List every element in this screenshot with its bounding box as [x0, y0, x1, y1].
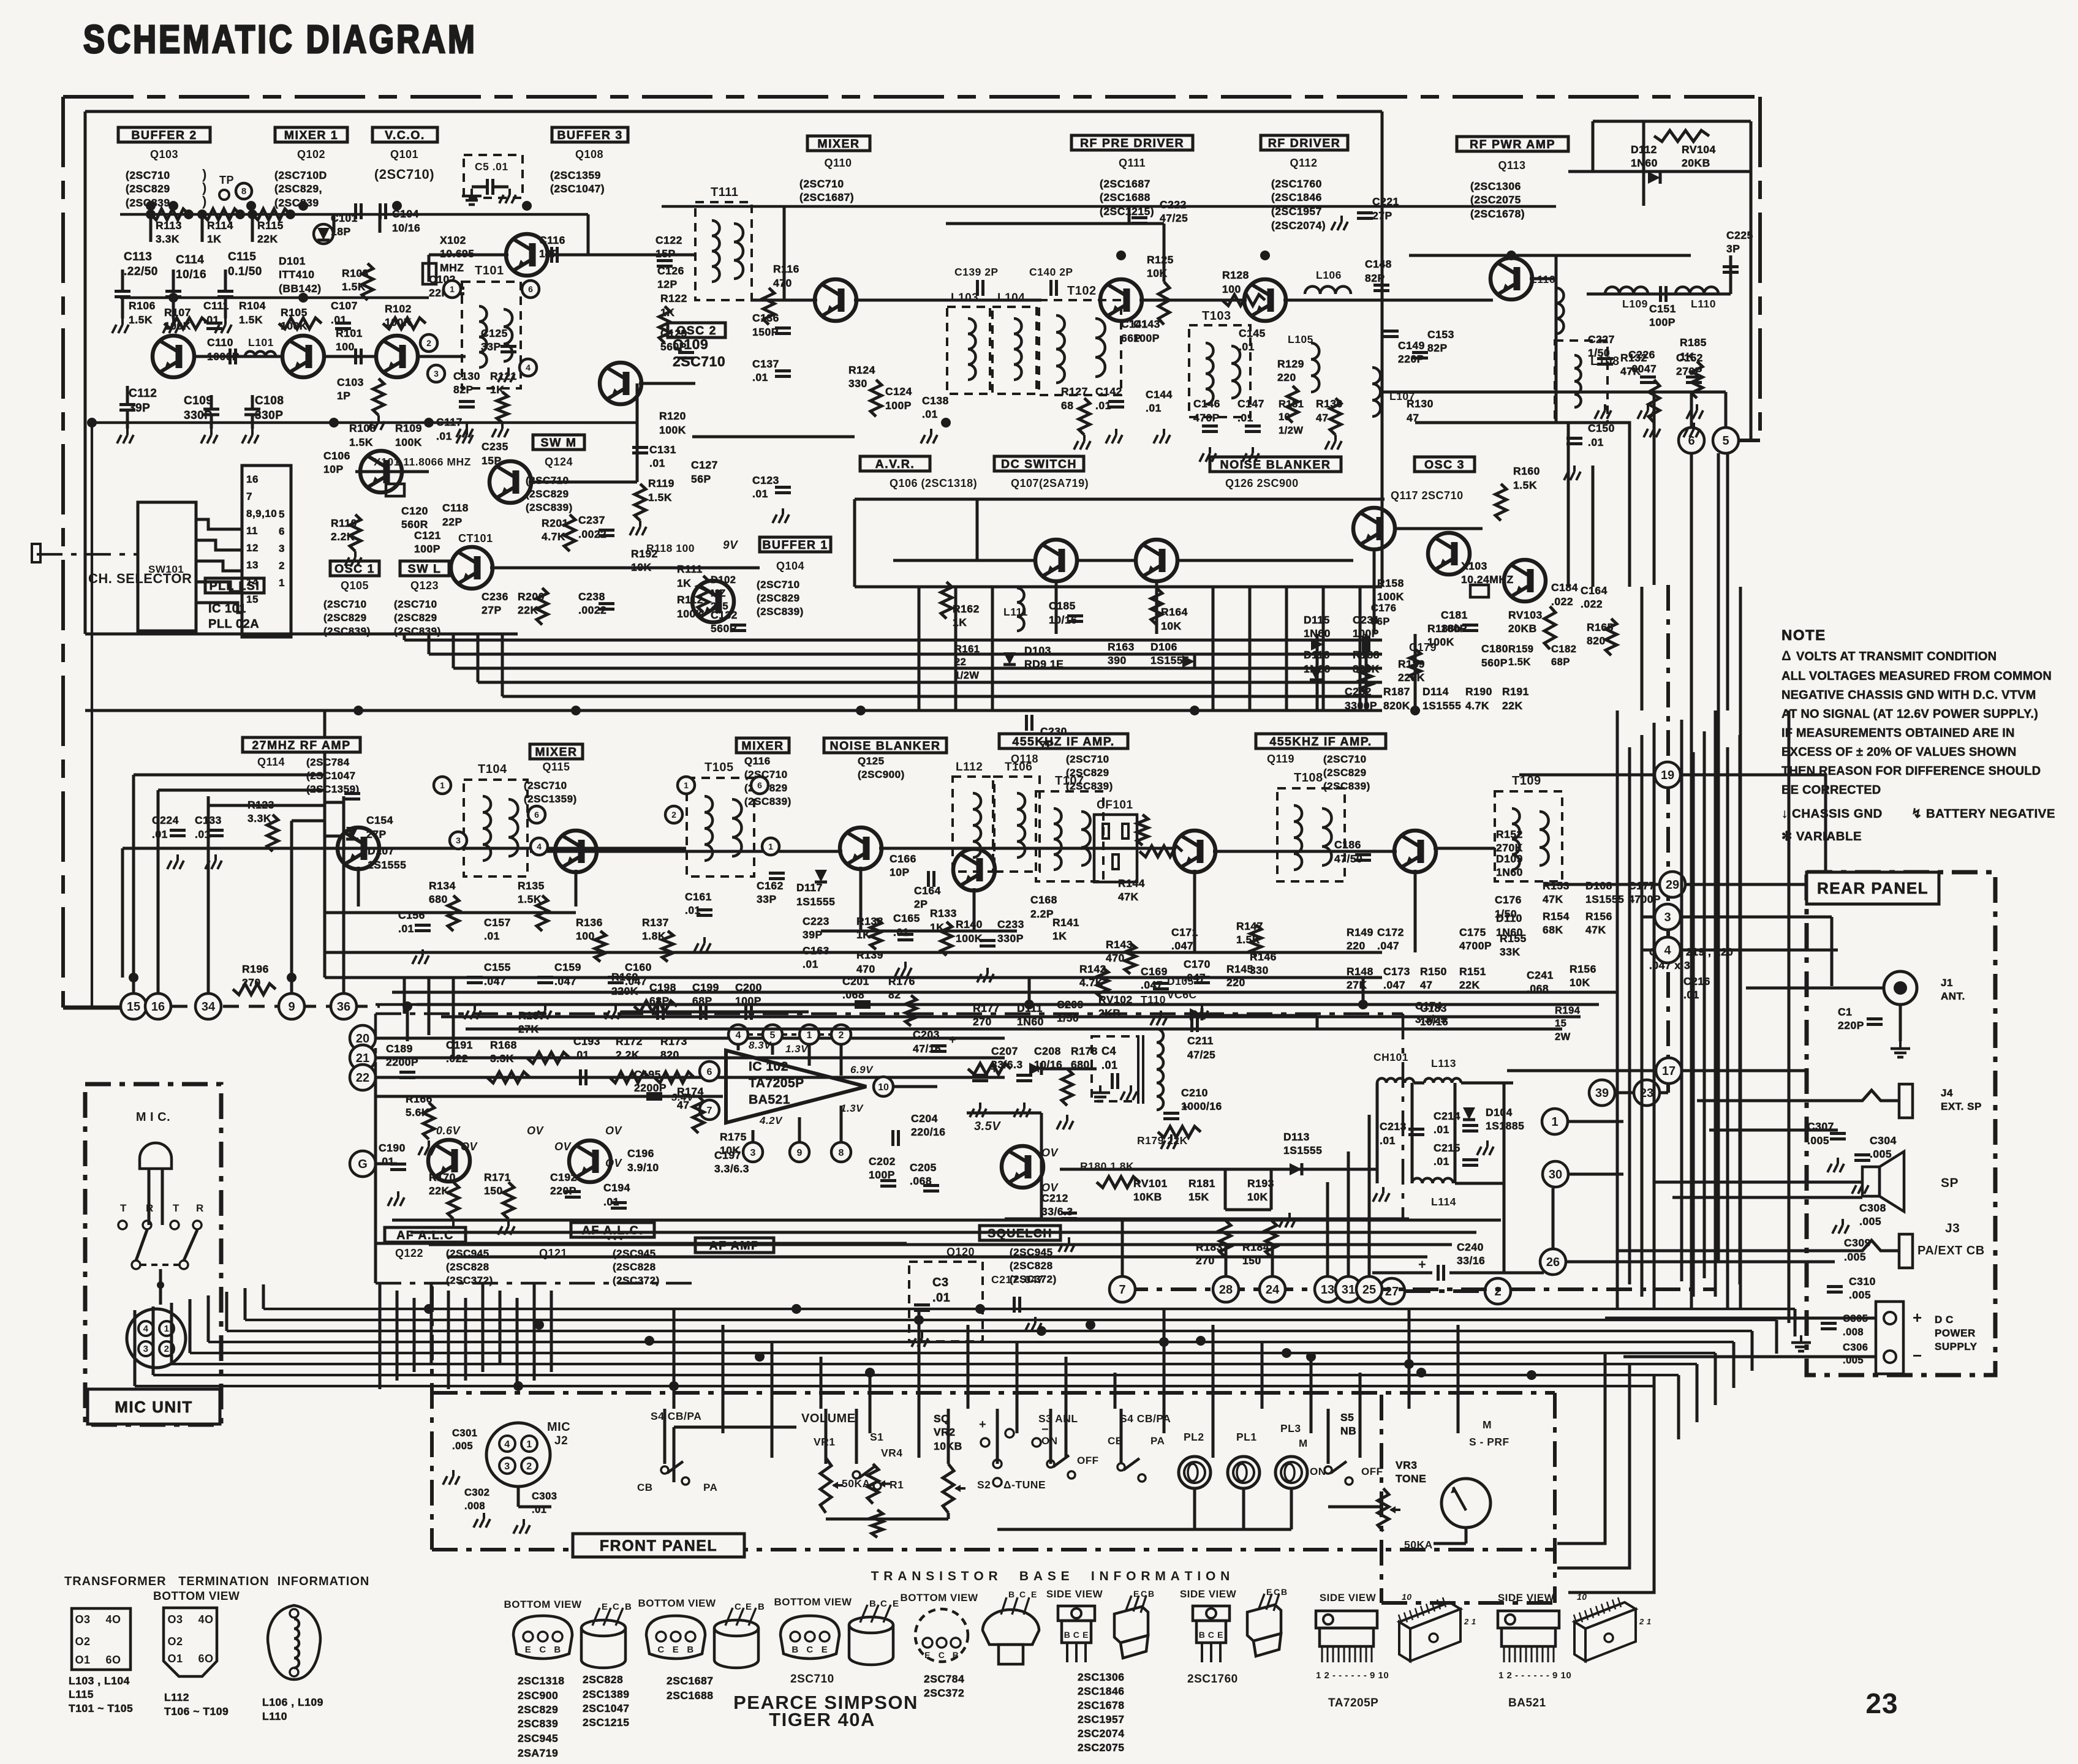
wire	[1557, 1353, 1605, 1543]
diode D105	[1190, 1008, 1202, 1020]
wire	[1653, 1386, 1656, 1457]
wire OSC2 drop	[636, 383, 639, 482]
svg-text:22K: 22K	[257, 233, 278, 245]
node 36	[331, 993, 357, 1019]
resistor R166	[423, 1102, 434, 1139]
svg-text:3.9/10: 3.9/10	[627, 1161, 659, 1174]
svg-text:17: 17	[1662, 1065, 1676, 1078]
capacitor C304	[1854, 1153, 1870, 1156]
svg-text:BOTTOM VIEW: BOTTOM VIEW	[774, 1596, 852, 1608]
svg-text:Q106 (2SC1318): Q106 (2SC1318)	[890, 477, 977, 489]
svg-text:✻ VARIABLE: ✻ VARIABLE	[1781, 829, 1862, 843]
node 9	[790, 1142, 809, 1162]
node 23	[1634, 1080, 1660, 1106]
ground	[1861, 1179, 1864, 1185]
wire	[1347, 1151, 1350, 1276]
transformer T104	[464, 780, 527, 876]
svg-text:12: 12	[246, 542, 259, 554]
svg-text:470P: 470P	[1193, 412, 1220, 424]
svg-text:R173: R173	[660, 1035, 687, 1047]
junction	[755, 1352, 765, 1362]
wire	[1824, 775, 1827, 884]
svg-text:PA: PA	[703, 1482, 717, 1493]
resistor R144	[1137, 815, 1148, 845]
node 3	[1655, 904, 1680, 930]
legend dashed can 2SC784	[915, 1609, 968, 1662]
block label RF PRE DRIVER	[1071, 135, 1193, 150]
svg-text:R196: R196	[242, 963, 269, 975]
svg-text:33K: 33K	[1500, 946, 1521, 958]
transformer T105	[687, 778, 754, 876]
wire Q126 down	[1373, 549, 1376, 634]
svg-text:C118: C118	[442, 502, 469, 514]
inductor	[1322, 809, 1332, 865]
wire	[292, 820, 325, 823]
svg-text:Q105: Q105	[341, 579, 369, 592]
svg-text:+: +	[991, 1063, 998, 1076]
svg-text:D114: D114	[1422, 685, 1449, 698]
svg-text:O1: O1	[167, 1653, 183, 1665]
legend coil oval L106	[268, 1605, 320, 1679]
node 30	[1543, 1161, 1568, 1187]
ground	[1837, 1158, 1839, 1164]
svg-text:): )	[202, 194, 207, 209]
ground	[703, 937, 706, 943]
svg-text:C223: C223	[803, 915, 829, 927]
resistor R137	[662, 931, 673, 962]
svg-text:.01: .01	[1380, 1134, 1396, 1147]
svg-text:SUPPLY: SUPPLY	[1935, 1341, 1978, 1352]
DC power supply terminals	[1876, 1302, 1903, 1374]
wire	[376, 1057, 1005, 1060]
wire	[1758, 97, 1762, 440]
svg-text:C211: C211	[1187, 1035, 1214, 1047]
wire	[517, 1487, 520, 1507]
svg-text:3: 3	[504, 1461, 510, 1472]
wire Q107 down	[1155, 581, 1158, 634]
transistor Q105	[360, 451, 402, 492]
svg-text:C166: C166	[890, 853, 916, 865]
wire	[1049, 1409, 1052, 1464]
resistor R122	[659, 306, 670, 343]
wire	[374, 1077, 377, 1283]
jack S2 contacts	[981, 1438, 989, 1447]
svg-text:B: B	[625, 1602, 632, 1612]
inductor	[712, 221, 720, 282]
ground	[1023, 1102, 1026, 1109]
svg-text:R175: R175	[720, 1131, 747, 1143]
svg-text:(2SC828: (2SC828	[446, 1261, 489, 1273]
resistor R164	[1151, 588, 1162, 625]
svg-text:M: M	[1299, 1438, 1308, 1449]
svg-text:1S1885: 1S1885	[1486, 1120, 1524, 1132]
svg-text:T: T	[120, 1202, 127, 1214]
svg-text:C111: C111	[203, 300, 229, 312]
crystal X103	[1470, 585, 1489, 597]
junction	[247, 209, 257, 219]
svg-text:O3: O3	[75, 1613, 90, 1626]
svg-text:B: B	[687, 1645, 693, 1655]
svg-text:T108: T108	[1294, 771, 1323, 785]
svg-text:820K: 820K	[1383, 699, 1410, 712]
wire fp4	[1328, 1506, 1383, 1509]
svg-text:CH101: CH101	[1373, 1051, 1408, 1063]
capacitor	[165, 290, 181, 293]
wire	[1729, 255, 1732, 294]
legend SIP BA521	[1498, 1611, 1559, 1628]
wire	[1270, 1169, 1273, 1210]
svg-text:4O: 4O	[198, 1613, 213, 1626]
svg-text:E: E	[673, 1645, 679, 1655]
svg-text:.01: .01	[752, 371, 768, 383]
inductor	[1081, 812, 1090, 865]
svg-text:(2SC710): (2SC710)	[374, 167, 434, 182]
wire	[432, 1391, 1555, 1395]
legend can 2SC828	[581, 1620, 625, 1636]
svg-text:C123: C123	[752, 474, 779, 486]
svg-text:Q123: Q123	[410, 579, 439, 592]
svg-text:B: B	[1064, 1630, 1071, 1640]
capacitor C221	[1357, 211, 1373, 214]
inductor	[1540, 812, 1549, 865]
transformer T106	[994, 777, 1040, 872]
transistor Q107	[1136, 540, 1177, 581]
svg-text:14: 14	[246, 576, 259, 588]
capacitor C137	[775, 369, 791, 372]
svg-text:VR4: VR4	[881, 1447, 903, 1459]
capacitor C147	[1245, 424, 1261, 428]
ground	[466, 429, 468, 435]
svg-text:L113: L113	[1431, 1057, 1456, 1069]
wire rfamp in	[123, 847, 466, 850]
svg-text:C156: C156	[398, 909, 425, 921]
svg-text:68: 68	[1061, 399, 1073, 412]
capacitor C170	[1194, 976, 1210, 979]
svg-text:R132: R132	[1620, 352, 1647, 364]
wire fp2	[826, 1518, 948, 1521]
svg-text:820: 820	[660, 1049, 679, 1061]
svg-text:R116: R116	[773, 263, 799, 275]
wire	[447, 1256, 1427, 1259]
wire	[1414, 1082, 1424, 1085]
svg-text:.01: .01	[1146, 402, 1162, 414]
wire	[1402, 1014, 1405, 1219]
svg-text:(2SC839: (2SC839	[274, 197, 319, 209]
inductor	[732, 799, 742, 856]
svg-text:R191: R191	[1502, 685, 1529, 698]
svg-text:BOTTOM VIEW: BOTTOM VIEW	[504, 1599, 581, 1610]
wire	[1316, 1016, 1319, 1029]
svg-text:3.5V: 3.5V	[974, 1120, 1001, 1133]
svg-text:C176: C176	[1495, 894, 1522, 906]
svg-text:.005: .005	[1849, 1289, 1871, 1301]
resistor R127	[1079, 398, 1090, 435]
svg-text:AF A.L.C: AF A.L.C	[396, 1229, 454, 1242]
ground	[1696, 404, 1698, 410]
node 9	[279, 993, 304, 1019]
legend coil	[294, 1619, 299, 1668]
node 6	[528, 806, 545, 823]
svg-text:C205: C205	[910, 1161, 937, 1174]
svg-text:220: 220	[1347, 940, 1366, 952]
wire	[947, 1409, 950, 1464]
svg-text:22K: 22K	[1502, 699, 1523, 712]
svg-text:C240: C240	[1457, 1241, 1484, 1253]
svg-text:C153: C153	[1427, 328, 1454, 341]
svg-text:10/16: 10/16	[176, 268, 206, 281]
capacitor C125	[501, 345, 516, 348]
wire	[1193, 870, 1196, 952]
capacitor C160	[608, 976, 624, 979]
svg-text:BUFFER 1: BUFFER 1	[762, 538, 828, 552]
svg-text:S5: S5	[1340, 1411, 1354, 1423]
svg-text:C1: C1	[1838, 1006, 1852, 1018]
svg-text:Q122: Q122	[395, 1247, 423, 1259]
svg-text:1/2W: 1/2W	[954, 670, 980, 681]
ground	[428, 1140, 430, 1147]
svg-text:R188b: R188b	[1427, 622, 1461, 635]
inductor L104 box	[992, 307, 1037, 394]
transistor Q121	[569, 1140, 611, 1182]
legend can 2SC710 3d	[849, 1617, 893, 1633]
svg-text:3: 3	[434, 369, 439, 379]
svg-text:(2SC710: (2SC710	[1066, 753, 1109, 765]
junction	[146, 209, 156, 219]
svg-text:R151: R151	[1459, 965, 1486, 978]
junction	[424, 418, 434, 428]
svg-text:2SC828: 2SC828	[583, 1673, 623, 1686]
diode D103	[1003, 652, 1016, 665]
svg-text:C146: C146	[1193, 398, 1220, 410]
transistor Q114	[338, 827, 379, 869]
svg-text:VOLUME: VOLUME	[801, 1412, 856, 1425]
svg-text:L109: L109	[1622, 298, 1648, 310]
resistor R147	[1250, 925, 1261, 956]
capacitor	[115, 290, 130, 293]
wire	[170, 1303, 173, 1364]
svg-text:10: 10	[1402, 1592, 1412, 1602]
svg-text:3: 3	[279, 543, 285, 554]
ground	[474, 1005, 476, 1011]
wire	[798, 1117, 801, 1142]
svg-text:TRANSFORMER TERMINATION INF: TRANSFORMER TERMINATION INFORMATION	[64, 1575, 369, 1588]
svg-text:3: 3	[1664, 911, 1671, 924]
svg-text:O2: O2	[75, 1635, 90, 1648]
svg-text:150: 150	[484, 1185, 503, 1197]
legend can 2SC1687	[646, 1616, 705, 1659]
svg-text:4: 4	[504, 1439, 510, 1450]
wire	[1714, 1353, 1717, 1405]
svg-text:C173: C173	[1383, 965, 1410, 978]
wire	[1703, 731, 1706, 1278]
svg-text:L106 , L109: L106 , L109	[262, 1696, 323, 1708]
ground	[377, 415, 380, 421]
svg-text:R181: R181	[1188, 1177, 1215, 1189]
svg-text:C136: C136	[752, 312, 779, 324]
resistor R183r	[1220, 1220, 1231, 1257]
resistor R115	[252, 209, 290, 220]
wire	[413, 1298, 416, 1372]
svg-text:R112: R112	[677, 594, 703, 606]
wire	[1310, 1357, 1313, 1433]
svg-text:D110: D110	[1496, 912, 1522, 924]
junction	[792, 1304, 801, 1314]
svg-text:2SC710: 2SC710	[673, 353, 725, 369]
resistor R135	[537, 895, 548, 931]
svg-text:7: 7	[246, 491, 252, 502]
svg-text:B: B	[1281, 1587, 1288, 1597]
svg-text:Q115: Q115	[542, 761, 570, 773]
svg-text:2: 2	[839, 1030, 844, 1041]
junction	[402, 1001, 412, 1011]
block label V.C.O.	[372, 127, 437, 142]
svg-text:2SC710: 2SC710	[790, 1673, 834, 1686]
svg-text:R101: R101	[336, 327, 363, 339]
wire	[207, 805, 210, 993]
svg-text:39P: 39P	[129, 402, 150, 415]
svg-text:D102: D102	[711, 575, 736, 586]
capacitor C237	[599, 529, 614, 532]
wire 26 row	[1566, 1261, 1826, 1264]
ground	[1066, 1115, 1068, 1121]
svg-text:BOTTOM VIEW: BOTTOM VIEW	[900, 1592, 978, 1604]
wire	[1725, 392, 1728, 428]
svg-text:+: +	[1182, 1101, 1189, 1114]
wire	[771, 1341, 774, 1458]
capacitor C116	[550, 247, 553, 263]
wire	[132, 978, 135, 993]
svg-text:PL2: PL2	[1184, 1431, 1204, 1443]
wire	[1381, 111, 1384, 587]
svg-text:(2SC829: (2SC829	[323, 612, 367, 624]
capacitor C152	[1686, 375, 1702, 379]
capacitor C142	[1108, 400, 1124, 403]
svg-text:L110: L110	[1691, 298, 1716, 310]
svg-text:SIDE VIEW: SIDE VIEW	[1498, 1592, 1555, 1604]
block label AF A.L.C	[385, 1227, 466, 1242]
block label BUFFER 1	[760, 537, 831, 552]
wire	[172, 1363, 1697, 1365]
wire	[396, 1291, 399, 1381]
svg-text:2SC900: 2SC900	[518, 1689, 558, 1702]
wire Q112-Q113	[1283, 299, 1493, 302]
svg-text:R163: R163	[1108, 641, 1135, 653]
wire	[263, 1308, 1795, 1310]
ground	[1163, 429, 1165, 435]
svg-text:O1: O1	[75, 1654, 90, 1666]
wire	[251, 214, 254, 242]
wire	[1365, 634, 1368, 710]
svg-text:(BB142): (BB142)	[279, 282, 322, 295]
capacitor C130	[459, 400, 475, 403]
wire	[1680, 916, 1832, 919]
node 7	[700, 1100, 719, 1120]
wire	[722, 1325, 725, 1433]
wire	[991, 587, 994, 710]
inductor	[734, 224, 743, 279]
junction	[669, 1381, 679, 1391]
capacitor C165	[897, 933, 913, 936]
wire	[819, 1033, 831, 1036]
svg-text:OV: OV	[1041, 1147, 1059, 1159]
svg-text:R178: R178	[1071, 1045, 1098, 1057]
svg-text:.022: .022	[1551, 595, 1573, 608]
wire	[1672, 1196, 1862, 1199]
wire	[406, 1006, 409, 1041]
inductor	[1574, 355, 1581, 407]
svg-text:7: 7	[1119, 1283, 1125, 1297]
svg-text:E: E	[924, 1650, 931, 1660]
svg-text:C162: C162	[757, 880, 784, 892]
svg-text:ITT410: ITT410	[279, 268, 314, 281]
wire emitter row	[325, 911, 576, 914]
node 6	[1679, 428, 1704, 453]
wire	[1568, 1375, 1654, 1593]
wire	[1362, 978, 1365, 1005]
wire	[1322, 587, 1325, 710]
svg-text:C143: C143	[1133, 318, 1160, 330]
svg-text:MIC UNIT: MIC UNIT	[115, 1398, 193, 1416]
node 34	[195, 993, 221, 1019]
svg-text:.22/50: .22/50	[124, 265, 158, 278]
svg-text:.005: .005	[1870, 1148, 1892, 1160]
svg-text:.047: .047	[554, 975, 576, 987]
node 13	[1315, 1276, 1340, 1302]
svg-text:C208: C208	[1034, 1045, 1061, 1057]
wire	[157, 790, 160, 993]
junction	[513, 1381, 523, 1391]
svg-text:E: E	[1217, 1630, 1223, 1640]
diode	[317, 228, 330, 240]
svg-text:B: B	[1148, 1589, 1155, 1599]
svg-text:BOTTOM VIEW: BOTTOM VIEW	[153, 1590, 240, 1603]
resistor R114	[202, 209, 240, 220]
svg-text:5: 5	[1722, 434, 1729, 448]
inductor L101	[245, 352, 276, 356]
junction	[1410, 706, 1420, 715]
capacitor C111	[206, 322, 222, 325]
svg-text:T102: T102	[1067, 284, 1097, 298]
svg-text:R130: R130	[1407, 398, 1434, 410]
node 1	[444, 281, 461, 298]
svg-text:DC SWITCH: DC SWITCH	[1001, 458, 1077, 471]
capacitor C212	[1061, 1212, 1077, 1215]
rear panel border	[1807, 872, 1995, 1375]
capacitor C210	[1163, 1112, 1179, 1115]
svg-text:IC 102: IC 102	[749, 1060, 788, 1074]
svg-text:B: B	[869, 1599, 876, 1609]
svg-text:5: 5	[279, 508, 285, 520]
svg-text:16: 16	[246, 473, 259, 485]
svg-text:4.7K: 4.7K	[1465, 699, 1489, 712]
wire	[1016, 1341, 1019, 1433]
transistor Q120	[1002, 1146, 1043, 1188]
transistor Q126	[1353, 508, 1395, 549]
svg-text:1S1555: 1S1555	[796, 895, 835, 908]
wire left drop	[91, 423, 93, 1008]
ground	[1209, 447, 1211, 453]
wire	[1465, 1528, 1468, 1543]
svg-text:1.5K: 1.5K	[342, 281, 366, 293]
capacitor C201	[855, 1000, 871, 1003]
svg-text:47K: 47K	[1620, 365, 1641, 377]
capacitor C195c	[646, 1092, 662, 1095]
node 1	[1542, 1109, 1568, 1134]
svg-text:V.C.O.: V.C.O.	[385, 129, 425, 142]
wire	[1414, 634, 1417, 710]
resistor R105	[279, 318, 322, 329]
svg-text:J3: J3	[1945, 1221, 1960, 1235]
